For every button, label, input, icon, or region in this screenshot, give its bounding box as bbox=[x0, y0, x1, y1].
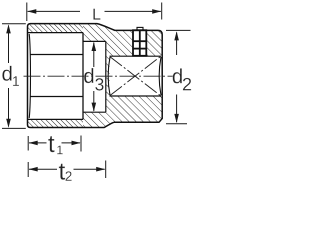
mouth chamfer arc bbox=[29, 34, 30, 118]
dimension d3 bbox=[92, 42, 97, 112]
relief bore (d3) outline bbox=[83, 41, 106, 112]
dimension t2 bbox=[28, 161, 106, 179]
socket body metal cross-section (outer profile minus cavities), hatched bbox=[0, 0, 192, 184]
centerline (dash-dot) bbox=[24, 75, 174, 77]
dimension d1 bbox=[2, 24, 26, 129]
dimension t1 bbox=[28, 136, 81, 152]
square hole diagonals (dash-dot) bbox=[110, 57, 160, 96]
square drive hole outline bbox=[108, 56, 161, 96]
hex internal corner lines bbox=[30, 55, 83, 97]
hex cavity outline (12pt opening) bbox=[28, 33, 83, 120]
dimension L bbox=[27, 3, 162, 22]
socket outer profile outline bbox=[28, 24, 163, 128]
retaining pin bbox=[133, 27, 146, 55]
dimension d2 bbox=[166, 30, 191, 123]
